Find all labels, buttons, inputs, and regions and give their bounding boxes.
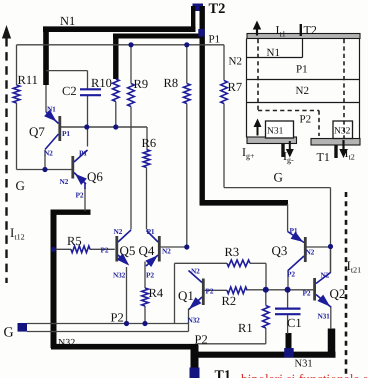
svg-text:T1: T1 (317, 150, 330, 164)
wire: gate drop to Q3 base and Q2 collector (330, 188, 332, 273)
wire: N2 bottom wire of left box (17, 169, 72, 171)
wire: Q2 emitter stub (thick) (328, 329, 336, 356)
caption red text (clipped) (241, 372, 368, 378)
wire: T2 branch lower horizontal (thick) (200, 200, 288, 206)
wire: Q7 emitter thin segment (45, 85, 47, 112)
wire: Q3 collector drop (287, 270, 289, 290)
transistor Q7 (29, 110, 60, 150)
wire: C2 bottom to P1 node (87, 96, 89, 127)
pin label P2 (Q4 emitter) (146, 271, 154, 280)
svg-text:R1: R1 (238, 321, 253, 335)
svg-text:P1: P1 (290, 226, 298, 235)
structure: I_t2 arrow (339, 140, 347, 158)
label N32 structure (334, 127, 351, 137)
structure: right bottom metal bar (311, 139, 360, 146)
node on P1 rail at R8 (184, 42, 189, 47)
transistor Q2 (315, 273, 346, 308)
label I_t2 (345, 146, 355, 162)
label G structure (274, 170, 283, 185)
structure: I_t1 arrow (253, 21, 261, 36)
wire: R1 lower lead and return to T1 (198, 328, 266, 344)
pin label N1 (Q7 emitter) (47, 105, 56, 114)
svg-text:It21: It21 (347, 258, 362, 275)
transistor Q4 (139, 231, 160, 268)
svg-text:T2: T2 (304, 23, 317, 37)
pin label N2 (Q3 base) (306, 248, 315, 257)
svg-text:N2: N2 (162, 247, 171, 256)
pin label N32 (Q5 emitter) (113, 271, 126, 280)
wire: R7 branch from P1 rail (223, 45, 225, 81)
svg-text:N31: N31 (267, 127, 284, 137)
svg-text:N31: N31 (295, 359, 313, 370)
svg-text:P2: P2 (195, 333, 208, 347)
svg-text:Q7: Q7 (29, 124, 45, 139)
svg-text:Q5: Q5 (120, 243, 136, 258)
node1 R2/R3/R1 (263, 287, 269, 293)
pin label N31 (Q2 emitter) (318, 312, 331, 321)
wire: T2 right leg / main T2 vertical (thick) (199, 6, 204, 206)
wire: R10 stub drop (thick) (113, 36, 118, 79)
wire: left thick vertical bus (N32/P2) (51, 210, 57, 348)
wire: C1 upper lead (287, 290, 289, 308)
label N1 top (60, 14, 75, 28)
label P2 structure (300, 114, 312, 126)
node gate drop / Q3 base (328, 244, 333, 249)
current arrow I_t12 dashed line (2, 25, 11, 283)
resistor R7 (221, 80, 242, 104)
svg-text:N2: N2 (114, 227, 123, 236)
resistor R10 (91, 76, 119, 102)
label T2 (209, 1, 226, 17)
node P1 wire / R10 (113, 124, 118, 129)
wire: Q6 emitter drop (84, 188, 86, 211)
svg-text:R7: R7 (228, 80, 243, 94)
svg-text:G: G (16, 178, 25, 193)
svg-text:Ig+: Ig+ (242, 145, 255, 161)
svg-text:P2: P2 (287, 270, 295, 279)
structure: I_g- arrow (286, 141, 294, 158)
svg-text:C1: C1 (287, 316, 302, 330)
label I_t21 (347, 258, 362, 275)
svg-text:N32: N32 (334, 127, 351, 137)
label I_g+ (242, 145, 255, 161)
transistor Q6 (73, 150, 104, 189)
node P2 line at R4 (142, 321, 147, 326)
svg-text:Q6: Q6 (87, 169, 103, 184)
structure: N1 well box (247, 39, 303, 58)
svg-text:N2: N2 (60, 177, 69, 186)
pin label P2 (Q1 base) (206, 287, 214, 296)
svg-text:P1: P1 (62, 129, 70, 138)
pin label N2 (Q7 collector) (44, 149, 53, 158)
svg-text:N2: N2 (321, 271, 330, 280)
resistor R8 (164, 76, 191, 104)
svg-text:N2: N2 (44, 149, 53, 158)
terminal T2 blue square (193, 4, 204, 12)
wire: R5 to Q5 base (90, 248, 115, 250)
wire: Q6 collector riser (87, 127, 89, 147)
wire: Q2 collector riser (330, 247, 332, 274)
wire: N32 gate line B (27, 331, 189, 333)
label P2 near T1 (195, 333, 208, 347)
wire: Q7 base P1 wire (61, 126, 147, 128)
svg-text:It2: It2 (345, 146, 355, 162)
wire: C2 top feed (46, 71, 88, 89)
svg-text:R11: R11 (18, 73, 38, 87)
structure: dashed boundary left (257, 39, 259, 111)
pin label N2 (Q4 base) (162, 247, 171, 256)
wire: Q4 base wire to node (161, 246, 187, 248)
pin label P2 (Q5 base) (101, 246, 109, 255)
label N31 structure (267, 127, 284, 137)
svg-text:R9: R9 (134, 77, 149, 91)
svg-text:Q3: Q3 (272, 243, 288, 258)
wire: N1 top bus (thick) (43, 26, 196, 32)
svg-text:P1: P1 (296, 64, 308, 76)
terminal G blue square (18, 323, 28, 332)
structure: dashed boundary horizontal (258, 110, 319, 112)
pin label N2 (Q6 base) (60, 177, 69, 186)
wire: bottom thick bus left (51, 344, 198, 350)
svg-text:N2: N2 (296, 85, 309, 97)
resistor R5 (67, 234, 90, 253)
transistor Q5 (117, 230, 136, 266)
pin label P2 (Q6 emitter) (76, 191, 84, 200)
wire: Q3 emitter riser from T2 branch (287, 204, 289, 232)
structure: outer box edges (247, 39, 360, 139)
node on P1 rail at R9 (128, 42, 133, 47)
label N2 below P1 (229, 56, 242, 68)
wire: R6 to Q4 collector (146, 168, 148, 230)
wire: R8 lead down to Q4 base node (186, 104, 188, 248)
label P1 right of T2 line (209, 34, 221, 46)
resistor R6 (142, 136, 157, 168)
wire: Q1 emitter drop (188, 309, 190, 332)
structure: dashed boundary right (343, 39, 345, 138)
label I_t12 (10, 225, 25, 242)
label T2 structure (304, 23, 317, 37)
label N32 bottom-left (58, 338, 75, 349)
wire: P2 gate line A (27, 323, 189, 325)
wire: left thick horizontal at Q6 emitter (51, 209, 91, 214)
structure: dashed drop (318, 111, 320, 137)
svg-text:R3: R3 (225, 245, 240, 259)
pin label N32 (Q1 emitter) (188, 316, 201, 325)
transistor Q3 (272, 232, 306, 271)
resistor R4 (142, 286, 164, 306)
svg-text:P2: P2 (303, 289, 311, 298)
pin label N2 (Q5 collector) (114, 227, 123, 236)
node: blue square at C1 stub on bus (284, 348, 294, 358)
wire: Q5 emitter drop (126, 267, 128, 324)
svg-text:P1: P1 (79, 149, 87, 158)
resistor R1 (238, 306, 269, 336)
svg-text:P1: P1 (147, 227, 155, 236)
label P1 structure (296, 64, 308, 76)
svg-text:N1: N1 (60, 14, 75, 28)
node Q4 base / Q1 collector / R8 (184, 244, 189, 249)
label N31 bottom-right (295, 359, 313, 370)
pin label N2 (Q1 collector) (191, 267, 200, 276)
svg-text:T1: T1 (215, 369, 231, 378)
wire: R6 branch corner (146, 127, 148, 150)
wire: Q1 base to R2 (205, 289, 228, 291)
structure: left bottom metal bar (247, 137, 297, 144)
svg-text:C2: C2 (62, 84, 77, 98)
wire: T2 left leg (thick) (191, 6, 195, 31)
svg-text:Q1: Q1 (178, 288, 194, 303)
svg-text:N32: N32 (188, 316, 201, 325)
structure: N2/P2 boundary (247, 102, 360, 104)
svg-text:N2: N2 (306, 248, 315, 257)
label N2 structure (296, 85, 309, 97)
svg-text:P2: P2 (76, 191, 84, 200)
node R5 at thick bus (51, 247, 56, 252)
wire: R5 feed from bus (54, 248, 71, 250)
wire: second top bus to R10 (thick) (113, 34, 203, 39)
svg-text:It12: It12 (10, 225, 25, 242)
structure: G lead (281, 144, 284, 158)
svg-text:N2: N2 (229, 56, 242, 68)
pin label P2 (Q3 collector) (287, 270, 295, 279)
svg-text:N1: N1 (267, 47, 280, 59)
wire: R7 lead down (223, 104, 225, 188)
wire: C1 lower lead (287, 315, 289, 334)
structure: T2 lead tick (300, 24, 302, 36)
wire: R9 lead down to Q5 collector (130, 107, 132, 230)
wire: bottom thick bus right (N31) (194, 352, 336, 358)
label G bottom-left (4, 326, 14, 341)
wire: R9 branch upper (130, 45, 132, 84)
wire: R1 upper lead (265, 290, 267, 306)
structure: T1 lead (334, 145, 337, 158)
wire: R8 branch upper (186, 45, 188, 84)
pin label N2 (Q2 collector) (321, 271, 330, 280)
wire: left box edge with R11 (16, 45, 18, 170)
wire: R10 lead to P1 wire (115, 102, 117, 128)
wire: T1 drop (thick) (191, 345, 199, 369)
node P1 rail (thin horizontal) (17, 44, 225, 46)
pin label P1 (Q3 emitter) (290, 226, 298, 235)
svg-text:N2: N2 (191, 267, 200, 276)
capacitor C1 (275, 309, 302, 330)
wire: C1 lower stub (thick) (286, 333, 292, 355)
node: bus junction blue square at T2 vertical (198, 29, 204, 37)
label I_g- (283, 149, 294, 165)
wire: gate horizontal to Q3/Q2 (224, 187, 331, 189)
structure: N31 cathode box (266, 121, 294, 138)
structure: T2 top metal bar (247, 34, 360, 39)
svg-text:R5: R5 (67, 234, 82, 248)
svg-text:N31: N31 (318, 312, 331, 321)
transistor Q1 (178, 271, 203, 310)
pin label P1 (Q7 base) (62, 129, 70, 138)
resistor R11 (13, 73, 38, 103)
svg-text:P1: P1 (209, 34, 221, 46)
svg-text:R4: R4 (149, 286, 164, 300)
wire: Q7 collector drop (44, 150, 46, 170)
node2 Q3 collector / C1 (285, 287, 291, 293)
svg-text:R6: R6 (142, 136, 157, 150)
svg-text:P2: P2 (101, 246, 109, 255)
wire: Q2 emitter drop (330, 306, 332, 329)
wire: R3 riser from P2 line (174, 263, 176, 323)
svg-text:R2: R2 (222, 294, 237, 308)
svg-text:N1: N1 (47, 105, 56, 114)
node N2 Q7-collector/Q6-base (42, 167, 47, 172)
structure: N32 box (333, 121, 353, 139)
wire: Q4 emitter drop (144, 262, 146, 289)
capacitor C2 (62, 84, 101, 98)
svg-text:G: G (274, 170, 283, 185)
wire: N1 bus left drop to Q7 emitter (thick) (43, 27, 49, 85)
label T1 structure (317, 150, 330, 164)
node P1 wire / C2 / Q6 (84, 124, 89, 129)
wire: R4 lower lead (144, 306, 146, 324)
current line I_t21 dashed (345, 192, 348, 378)
structure: I_g+ arrow up (254, 119, 262, 136)
label I_t1 (276, 23, 286, 39)
svg-text:P2: P2 (111, 311, 124, 325)
svg-text:P2: P2 (300, 114, 312, 126)
svg-text:Q2: Q2 (330, 286, 346, 301)
wire: R3 horizontal left (175, 262, 228, 264)
pin label P1 (Q6 collector) (79, 149, 87, 158)
label P2 bottom-left (111, 311, 124, 325)
pin label P1 (Q4 collector) (147, 227, 155, 236)
structure: P1/N2 boundary (247, 79, 360, 81)
svg-text:bipolari si functionala s: bipolari si functionala s (241, 372, 368, 378)
svg-text:T2: T2 (209, 1, 226, 17)
svg-text:P2: P2 (146, 271, 154, 280)
svg-text:N32: N32 (113, 271, 126, 280)
svg-text:R8: R8 (164, 76, 179, 90)
label T1 bottom (clipped) (215, 369, 231, 378)
resistor R9 (128, 77, 148, 107)
svg-text:R10: R10 (91, 76, 112, 90)
svg-text:G: G (4, 326, 14, 341)
svg-text:N32: N32 (58, 338, 75, 349)
wire: R2 to node1 (247, 289, 266, 291)
label G left (16, 178, 25, 193)
resistor R3 (225, 245, 251, 267)
terminal T1 blue square (190, 368, 200, 378)
svg-text:Q4: Q4 (139, 243, 155, 258)
wire: R3 right to corner (250, 263, 266, 290)
label N1 structure (267, 47, 280, 59)
node P2 line at Q5 emitter (124, 321, 129, 326)
svg-text:It1: It1 (276, 23, 286, 39)
resistor R2 (222, 287, 248, 308)
pin label P2 (Q2 base) (303, 289, 311, 298)
svg-text:P2: P2 (206, 287, 214, 296)
wire: Q3 base wire (307, 246, 331, 248)
wire: node1 to Q2 base (266, 289, 313, 291)
